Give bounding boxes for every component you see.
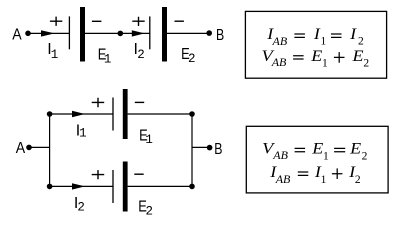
node B parallel — [207, 145, 213, 151]
wire top-left to E1 parallel — [50, 113, 113, 115]
svg-text:1: 1 — [145, 133, 153, 147]
equation line VAB = E1 = E2 — [262, 140, 368, 162]
right rail wire — [191, 114, 193, 186]
wire bottom-left to E2 parallel — [50, 185, 113, 187]
svg-text:AB: AB — [272, 148, 288, 162]
svg-text:1: 1 — [79, 127, 87, 141]
equation line IAB = I1 + I2 — [269, 164, 361, 186]
polarity - of E2 — [175, 20, 184, 22]
junction bottom-right — [189, 184, 195, 190]
node A — [25, 31, 31, 37]
svg-text:E: E — [310, 48, 322, 65]
svg-text:I: I — [313, 26, 321, 43]
polarity - of E2 parallel — [134, 173, 143, 175]
svg-text:2: 2 — [137, 48, 145, 62]
battery E2 parallel positive plate — [112, 170, 114, 203]
svg-text:I: I — [349, 26, 357, 43]
polarity - of E1 — [92, 20, 102, 22]
wire A to E1 — [28, 32, 69, 34]
left rail wire — [49, 114, 51, 186]
svg-text:2: 2 — [362, 151, 368, 163]
svg-text:2: 2 — [146, 205, 154, 219]
polarity + of E2 parallel — [92, 170, 105, 179]
svg-text:AB: AB — [272, 34, 288, 48]
polarity + of E1 parallel — [92, 98, 105, 107]
battery E1 parallel negative plate — [123, 89, 128, 139]
svg-text:2: 2 — [188, 52, 196, 66]
svg-text:1: 1 — [51, 48, 59, 62]
battery E2 positive plate — [149, 16, 151, 49]
junction top-left — [47, 111, 53, 117]
svg-text:2: 2 — [358, 36, 364, 48]
junction top-right — [189, 111, 195, 117]
svg-text:1: 1 — [321, 174, 327, 186]
battery E2 negative plate — [162, 7, 167, 62]
equation line VAB = E1 + E2 — [262, 48, 370, 69]
wire right rail to B parallel — [192, 146, 210, 148]
svg-text:B: B — [214, 141, 222, 158]
svg-text:A: A — [12, 27, 22, 44]
wire E1 to top-right — [128, 113, 192, 115]
equation box parallel — [246, 126, 388, 193]
current arrow I2 — [132, 30, 145, 36]
current arrow I1 — [41, 30, 55, 36]
svg-text:AB: AB — [275, 172, 291, 186]
battery E1 negative plate — [80, 7, 85, 62]
battery E2 parallel negative plate — [123, 162, 128, 212]
svg-text:1: 1 — [323, 151, 329, 163]
wire mid node to E2 — [120, 32, 150, 34]
equation line IAB = I1 = I2 — [266, 26, 364, 48]
wire E1 to mid node — [85, 32, 120, 34]
svg-text:E: E — [311, 140, 323, 157]
current arrow I1 parallel — [72, 111, 85, 117]
svg-text:1: 1 — [104, 52, 112, 66]
wire E2 to bottom-right — [128, 185, 192, 187]
wire A to left rail — [29, 146, 50, 148]
node A parallel — [26, 145, 32, 151]
junction node between E1 and E2 — [118, 31, 124, 37]
battery E1 parallel positive plate — [112, 98, 114, 131]
svg-text:E: E — [349, 140, 361, 157]
svg-text:1: 1 — [322, 57, 328, 69]
equation box series — [245, 11, 386, 78]
svg-text:E: E — [351, 48, 363, 65]
svg-text:1: 1 — [321, 36, 327, 48]
svg-text:2: 2 — [363, 57, 369, 69]
svg-text:B: B — [216, 27, 224, 44]
svg-text:2: 2 — [355, 174, 361, 186]
junction bottom-left — [47, 184, 53, 190]
current arrow I2 parallel — [72, 183, 85, 189]
battery E1 positive plate — [68, 16, 70, 49]
node B — [206, 30, 212, 36]
svg-text:AB: AB — [271, 55, 287, 69]
polarity - of E1 parallel — [135, 101, 144, 103]
polarity + of E2 — [132, 17, 144, 26]
wire E2 to B — [167, 32, 209, 34]
polarity + of E1 — [50, 17, 62, 26]
svg-text:A: A — [16, 140, 26, 157]
svg-text:2: 2 — [77, 200, 85, 214]
